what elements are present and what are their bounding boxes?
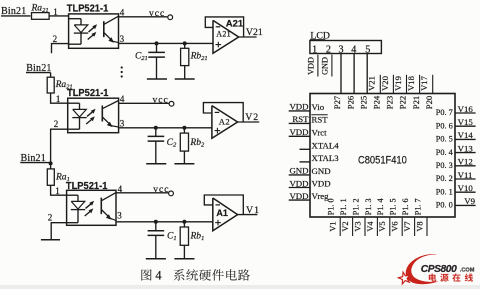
pin P0.0 <box>436 200 454 210</box>
pin P1. 4 <box>376 198 385 215</box>
wire <box>50 73 52 78</box>
svg-text:2: 2 <box>53 34 58 44</box>
svg-text:V20: V20 <box>380 76 390 91</box>
pin 1 label (stage 3) <box>55 186 60 196</box>
svg-text:Bin21: Bin21 <box>1 6 26 17</box>
ellipsis between stages <box>121 66 123 77</box>
svg-text:V3: V3 <box>353 221 362 231</box>
svg-text:P0. 4: P0. 4 <box>436 147 454 157</box>
svg-text:1: 1 <box>53 7 58 17</box>
pin P26 <box>345 95 355 109</box>
pin P0.2 <box>436 173 453 183</box>
svg-text:P0. 3: P0. 3 <box>436 160 454 170</box>
wire XTAL3 stub <box>300 161 311 163</box>
svg-text:A21: A21 <box>226 19 244 30</box>
junction (Bin21 / stage2 pin2) <box>49 161 53 165</box>
net V21 <box>367 75 381 94</box>
svg-text:1: 1 <box>56 94 61 104</box>
svg-text:3: 3 <box>120 118 125 128</box>
net V17 <box>419 75 433 94</box>
pin 4 label (stage 2) <box>120 94 125 104</box>
vcc label (stage 3) <box>153 185 169 195</box>
net V19 <box>393 75 407 94</box>
pin P1. 1 <box>339 198 348 215</box>
svg-text:2: 2 <box>54 119 59 129</box>
net V11 <box>455 170 476 180</box>
node Bin21 (stage 2 input) <box>26 63 52 74</box>
pin P0.6 <box>436 120 454 130</box>
svg-text:TLP521-1: TLP521-1 <box>67 3 109 14</box>
svg-text:A1: A1 <box>216 208 228 218</box>
pin XTAL4 <box>312 140 340 150</box>
pin P1. 5 <box>389 198 398 215</box>
junction (stage 2, Rb2) <box>182 126 186 130</box>
svg-text:vcc: vcc <box>153 95 169 105</box>
svg-text:1: 1 <box>312 45 317 56</box>
wire output V21 <box>239 36 257 38</box>
svg-text:VDD: VDD <box>289 178 308 188</box>
net V15 <box>455 117 476 127</box>
wire pin3 (stage 2) <box>119 127 212 129</box>
svg-text:V10: V10 <box>458 183 474 193</box>
svg-text:GND: GND <box>289 166 308 176</box>
pin P27 <box>332 95 342 109</box>
op-amp A21 feedback wire <box>205 17 243 37</box>
microcontroller U4 C8051F410 <box>310 94 455 218</box>
svg-text:VDD: VDD <box>312 179 331 189</box>
pin 3 label (stage 2) <box>120 118 125 128</box>
svg-text:V19: V19 <box>393 76 403 91</box>
svg-text:P21: P21 <box>411 96 421 109</box>
svg-text:GND: GND <box>321 57 330 75</box>
junction (stage 2, C2) <box>154 126 158 130</box>
op-amp A21 <box>213 20 239 53</box>
junction (stage 3, Rb1) <box>182 220 186 224</box>
svg-text:.COM: .COM <box>460 268 475 274</box>
wire output V1 <box>238 214 258 216</box>
svg-text:CPS800: CPS800 <box>421 264 457 275</box>
wire XTAL4 stub <box>300 148 311 150</box>
op-amp A21 designator <box>226 19 244 30</box>
pin 2 label (stage 1) <box>53 34 58 44</box>
net GND (MCU GND pin) <box>289 166 310 176</box>
pin VDD <box>312 179 331 189</box>
svg-text:P1. 4: P1. 4 <box>376 198 385 215</box>
wire vcc (stage 3) <box>116 192 168 194</box>
svg-text:P1. 2: P1. 2 <box>351 198 360 215</box>
capacitor C21 <box>135 43 165 79</box>
optocoupler U1 TLP521-1 (stage 1) <box>67 3 119 48</box>
capacitor C1 <box>148 222 177 259</box>
pin 4 label (stage 1) <box>120 7 125 17</box>
svg-text:GND: GND <box>312 166 331 176</box>
svg-text:2: 2 <box>326 45 331 56</box>
op-amp A1 feedback wire <box>204 195 243 215</box>
svg-text:P26: P26 <box>345 95 355 109</box>
optocoupler U2 TLP521-1 (stage 2) <box>67 88 119 133</box>
svg-text:4: 4 <box>120 7 125 17</box>
wire output V2 <box>238 121 260 123</box>
pin 2 label (stage 2) <box>54 119 59 129</box>
svg-text:P22: P22 <box>398 96 408 109</box>
net V2 <box>341 218 353 236</box>
svg-text:V14: V14 <box>458 130 474 140</box>
svg-text:P0. 0: P0. 0 <box>436 200 454 210</box>
node V21 <box>246 27 263 38</box>
pin Vio <box>312 102 325 112</box>
vcc label (stage 1) <box>149 9 165 19</box>
pin P20 <box>424 96 434 109</box>
pin P0.3 <box>436 160 454 170</box>
ground (Rb2) <box>174 163 194 165</box>
pin P1. 6 <box>401 198 410 215</box>
svg-text:V2: V2 <box>245 112 259 123</box>
svg-text:VDD: VDD <box>306 57 315 75</box>
svg-text:V7: V7 <box>403 221 412 231</box>
svg-text:V8: V8 <box>415 221 424 231</box>
capacitor C2 <box>148 128 177 164</box>
vcc terminal (stage 3) <box>169 191 174 196</box>
net V6 <box>391 218 403 236</box>
net VDD (MCU VDD pin) <box>289 178 310 188</box>
pin P25 <box>358 96 368 109</box>
svg-text:XTAL4: XTAL4 <box>312 140 340 150</box>
junction (stage 1, Rb21) <box>183 41 187 45</box>
svg-text:V13: V13 <box>458 143 474 153</box>
net V10 <box>455 183 476 193</box>
resistor Rb21 <box>181 43 208 79</box>
pin 3 label (stage 3) <box>117 211 122 221</box>
ground (C21) <box>147 78 167 80</box>
pin P24 <box>372 95 382 109</box>
svg-text:A2: A2 <box>219 116 231 126</box>
ground (Rb1) <box>174 258 194 260</box>
svg-text:V18: V18 <box>406 76 416 91</box>
svg-text:V6: V6 <box>391 221 400 231</box>
svg-text:1: 1 <box>55 186 60 196</box>
svg-text:RST: RST <box>312 114 329 124</box>
ground (C2) <box>146 163 166 165</box>
svg-text:P1. 0: P1. 0 <box>327 198 336 215</box>
op-amp A1 <box>213 198 238 231</box>
svg-text:P0. 6: P0. 6 <box>436 120 454 130</box>
net VDD (MCU Vrct pin) <box>289 127 310 137</box>
pin Vreg <box>312 191 330 201</box>
wire vcc (stage 2) <box>119 102 169 104</box>
pin P21 <box>411 96 421 109</box>
svg-text:Vrct: Vrct <box>312 127 328 137</box>
svg-text:V1: V1 <box>246 205 260 216</box>
resistor Ra21 (stage 2) <box>47 77 72 93</box>
vcc terminal (stage 2) <box>169 101 174 106</box>
net GND (LCD pin2) <box>321 55 332 77</box>
pin P0.1 <box>436 186 453 196</box>
svg-text:V15: V15 <box>458 117 474 127</box>
op-amp A2 feedback wire <box>203 103 243 122</box>
logo CPS800.com <box>398 254 474 284</box>
ground (C1) <box>146 258 166 260</box>
net V12 <box>455 157 476 167</box>
net V8 <box>415 218 427 236</box>
svg-text:vcc: vcc <box>149 9 165 19</box>
pin P23 <box>385 96 395 109</box>
svg-text:P23: P23 <box>385 96 395 109</box>
net V13 <box>455 143 476 153</box>
svg-text:V2: V2 <box>341 221 350 231</box>
svg-text:P0. 1: P0. 1 <box>436 186 453 196</box>
svg-text:VDD: VDD <box>289 102 308 112</box>
svg-text:V9: V9 <box>464 196 475 206</box>
svg-text:V21: V21 <box>246 27 263 38</box>
pin Vrct <box>312 127 328 137</box>
wire <box>49 15 69 17</box>
net RST (MCU RST pin) <box>289 114 310 124</box>
vcc label (stage 2) <box>153 95 169 105</box>
svg-text:4: 4 <box>120 94 125 104</box>
wire pin2 stub (stage 1) <box>52 44 69 54</box>
svg-text:P1. 1: P1. 1 <box>339 198 348 215</box>
svg-text:V17: V17 <box>419 75 429 91</box>
wire <box>51 185 67 195</box>
LCD label <box>310 31 330 42</box>
wire LCD pin5 to P25 <box>366 54 368 94</box>
ground (Rb21) <box>175 78 195 80</box>
svg-text:Vio: Vio <box>312 102 325 112</box>
svg-text:P27: P27 <box>332 95 342 109</box>
net V14 <box>455 130 476 140</box>
pin 2 label (stage 3) <box>48 212 53 222</box>
resistor Rb1 <box>180 222 204 259</box>
junction (stage 1, C21) <box>155 41 159 45</box>
svg-text:3: 3 <box>117 211 122 221</box>
net V3 <box>353 218 365 236</box>
wire <box>51 93 68 103</box>
wire pin2 to ground <box>51 223 66 240</box>
wire LCD pin3 to P27 <box>340 54 342 94</box>
net V1 <box>329 218 341 236</box>
pin GND <box>312 166 331 176</box>
optocoupler U3 TLP521-1 (stage 3) <box>66 181 116 226</box>
wire vcc (stage 1) <box>119 16 168 18</box>
pin P1. 3 <box>364 198 373 215</box>
svg-text:vcc: vcc <box>153 185 169 195</box>
svg-text:A21: A21 <box>216 30 231 39</box>
node Bin21 (stage 1 input) <box>1 6 31 17</box>
svg-text:VDD: VDD <box>289 191 308 201</box>
ground (stage 3 input) <box>41 239 60 241</box>
svg-text:P0. 2: P0. 2 <box>436 173 453 183</box>
svg-text:P1. 6: P1. 6 <box>401 198 410 215</box>
pin P1. 0 <box>327 198 336 215</box>
svg-text:C8051F410: C8051F410 <box>358 154 407 166</box>
svg-text:V1: V1 <box>329 221 338 231</box>
wire pin3 (stage 1) <box>119 42 214 44</box>
pin P0.4 <box>436 147 454 157</box>
svg-text:P1. 5: P1. 5 <box>389 198 398 215</box>
wire pin3 (stage 3) <box>116 221 213 223</box>
caption <box>141 268 249 282</box>
svg-text:V5: V5 <box>378 221 387 231</box>
svg-text:V16: V16 <box>458 104 474 114</box>
resistor Ra21 (stage 1) <box>31 3 50 19</box>
pin P1. 7 <box>413 198 422 215</box>
svg-text:V4: V4 <box>366 221 375 232</box>
svg-text:P1. 3: P1. 3 <box>364 198 373 215</box>
svg-text:P1. 7: P1. 7 <box>413 198 422 215</box>
net V9 <box>455 196 476 206</box>
pin 1 label (stage 1) <box>53 7 58 17</box>
svg-text:RST: RST <box>292 114 309 124</box>
net V5 <box>378 218 390 236</box>
pin XTAL3 <box>312 153 340 163</box>
node V2 <box>245 112 259 123</box>
node V1 <box>246 205 260 216</box>
pin 1 label (stage 2) <box>56 94 61 104</box>
pin P0.7 <box>436 107 454 117</box>
svg-text:V21: V21 <box>367 76 377 91</box>
net VDD (MCU Vio pin) <box>289 102 310 112</box>
pin 3 label (stage 1) <box>120 34 125 44</box>
resistor Rb2 <box>180 128 205 164</box>
svg-text:P24: P24 <box>372 95 382 109</box>
wire <box>50 163 52 169</box>
net V18 <box>406 75 420 94</box>
svg-text:VDD: VDD <box>289 127 308 137</box>
pin P1. 2 <box>351 198 360 215</box>
net VDD (MCU Vreg pin) <box>289 191 310 201</box>
svg-text:P0. 7: P0. 7 <box>436 107 454 117</box>
svg-text:4: 4 <box>155 268 161 282</box>
LCD connector <box>310 41 382 56</box>
svg-text:2: 2 <box>48 212 53 222</box>
pin 4 label (stage 3) <box>118 184 123 194</box>
net V20 <box>380 75 394 94</box>
resistor Ra1 (stage 3) <box>47 169 70 185</box>
node Bin21 (stage 3 input) <box>20 153 50 164</box>
wire pin2 to Bin21 junction <box>51 129 68 163</box>
net VDD (LCD pin1) <box>306 55 318 77</box>
svg-text:P25: P25 <box>358 96 368 109</box>
net V16 <box>455 104 476 114</box>
svg-text:XTAL3: XTAL3 <box>312 153 340 163</box>
svg-text:V12: V12 <box>458 157 473 167</box>
junction (stage 3, C1) <box>154 220 158 224</box>
net V7 <box>403 218 415 236</box>
vcc terminal (stage 1) <box>168 15 173 20</box>
pin P0.5 <box>436 134 454 144</box>
svg-text:3: 3 <box>120 34 125 44</box>
op-amp A2 <box>212 106 238 139</box>
wire LCD pin4 to P26 <box>353 54 355 94</box>
pin P22 <box>398 96 408 109</box>
svg-text:P0. 5: P0. 5 <box>436 134 454 144</box>
net V4 <box>366 218 378 236</box>
svg-text:V11: V11 <box>458 170 473 180</box>
pin RST <box>311 114 328 124</box>
svg-text:P20: P20 <box>424 96 434 109</box>
